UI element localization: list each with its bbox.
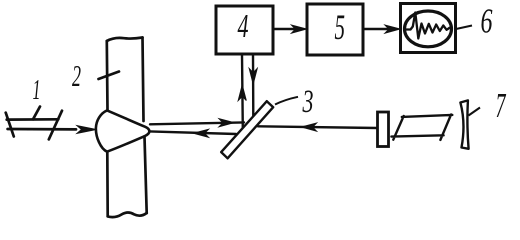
svg-text:4: 4 — [238, 8, 249, 45]
svg-text:2: 2 — [72, 58, 81, 93]
svg-text:3: 3 — [302, 84, 314, 120]
svg-text:5: 5 — [335, 7, 346, 47]
svg-text:1: 1 — [33, 75, 41, 106]
svg-text:7: 7 — [496, 86, 507, 125]
svg-text:6: 6 — [481, 2, 493, 41]
